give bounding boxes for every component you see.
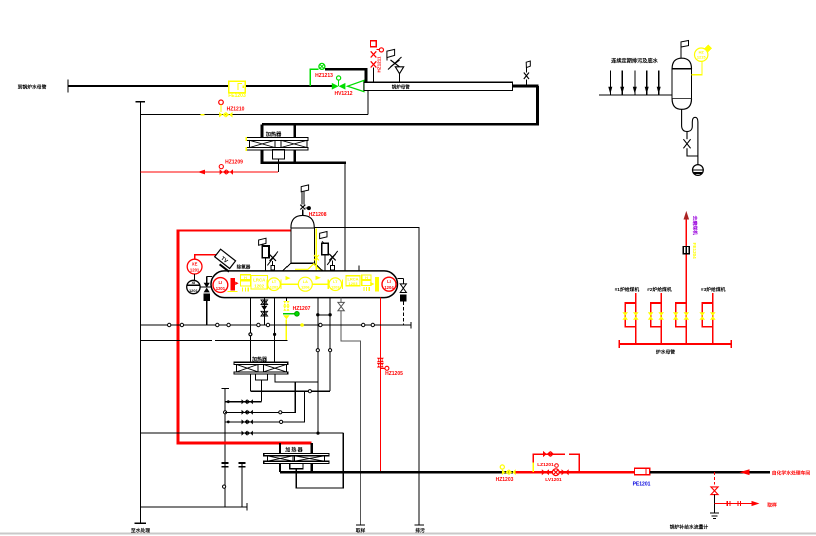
- blowdown flash vessel: [672, 58, 691, 109]
- wire: makeup water line black right: [650, 469, 811, 476]
- drum vent valve and flag: [300, 185, 311, 216]
- yellow alarm box H right: [362, 275, 371, 291]
- alarm LA1206: [298, 277, 312, 291]
- flow element FE1203: [228, 81, 246, 99]
- svg-text:LI: LI: [219, 280, 223, 285]
- wire: feeder manifold y=344.2: [619, 340, 731, 348]
- wire: horizontal line y=325: [140, 322, 411, 329]
- svg-text:1201: 1201: [190, 268, 200, 273]
- svg-text:LZ1201: LZ1201: [537, 462, 554, 468]
- wire: blowdown collect line y=95.1: [599, 94, 672, 96]
- wire: red main vertical x=177.9: [177, 230, 180, 445]
- wire: red supply to drum y=230.4: [178, 229, 291, 231]
- wire: yellow link LT1202 to LA1206: [281, 276, 298, 284]
- svg-text:取样: 取样: [356, 527, 366, 534]
- E2 condensate pot: [255, 374, 267, 380]
- deaerator tank: [211, 271, 398, 298]
- valve HZ1203 yellow: [496, 465, 516, 483]
- svg-text:HV1212: HV1212: [334, 91, 352, 97]
- wire: yellow link LA1206 to LT1203: [312, 276, 328, 285]
- wire: left long vertical x=140.3: [139, 102, 141, 523]
- svg-text:1201: 1201: [216, 286, 226, 291]
- tank left drain leg with valve: [203, 277, 212, 325]
- svg-text:PE1201: PE1201: [633, 481, 651, 487]
- svg-text:1202: 1202: [254, 284, 264, 289]
- level gauge assembly right of drum: [320, 232, 338, 271]
- heat exchanger E3 frame: [280, 443, 312, 472]
- svg-text:FE1203: FE1203: [228, 93, 246, 99]
- svg-text:至水处理: 至水处理: [131, 527, 150, 534]
- wire: feeder branch 4: [699, 293, 715, 344]
- svg-text:锅炉母管: 锅炉母管: [391, 84, 410, 91]
- wire: leg x=274.6 to line2: [273, 298, 276, 341]
- sample cooler TV: [213, 249, 237, 271]
- svg-text:HZ1209: HZ1209: [225, 159, 243, 165]
- transmitter LT1202: [267, 278, 281, 291]
- wire: bottom drain line y=506.8: [140, 503, 247, 511]
- level instrument HZ1215 yellow: [692, 44, 713, 74]
- wire: red riser to coal feeders x=686.3: [684, 211, 690, 344]
- svg-text:FE1204: FE1204: [692, 243, 697, 260]
- svg-text:连续定期排污及底水: 连续定期排污及底水: [611, 57, 659, 65]
- globe valve HZ1213: [315, 63, 333, 78]
- hand switch HZ1210: [219, 100, 245, 112]
- wire: green bypass riser: [310, 69, 319, 86]
- wire: thick line from header to downcomer: [513, 85, 539, 88]
- wire: second line y=114.7: [140, 114, 368, 116]
- svg-text:LT: LT: [333, 280, 338, 284]
- steam trap: [693, 165, 704, 176]
- svg-text:HZ1211: HZ1211: [377, 56, 382, 73]
- E1 condensate pot: [273, 150, 285, 159]
- svg-text:1215: 1215: [697, 55, 706, 60]
- svg-text:HZ1207: HZ1207: [293, 306, 311, 312]
- valve group HZ1211: [371, 41, 384, 82]
- black valve stack leg x=264.3: [261, 298, 268, 326]
- heat exchanger E3 tube bundle: [264, 453, 329, 463]
- indicator XI1201: [187, 274, 212, 294]
- svg-text:去磨煤机: 去磨煤机: [692, 216, 699, 235]
- svg-text:除氧器: 除氧器: [237, 263, 251, 270]
- wire: thick bypass top line: [325, 69, 366, 81]
- yellow level bar right: [370, 277, 379, 291]
- red level bar: [228, 278, 239, 292]
- svg-text:HZ1213: HZ1213: [315, 73, 333, 79]
- transmitter LT1203: [328, 278, 342, 291]
- svg-text:HZ1210: HZ1210: [227, 106, 245, 112]
- svg-text:#1炉给煤机: #1炉给煤机: [615, 286, 640, 293]
- wire: E2 shell outlet path: [275, 374, 318, 433]
- svg-text:LRCA: LRCA: [253, 277, 266, 282]
- wire: red condensate line to PE1201: [516, 471, 635, 473]
- svg-text:到锅炉水母管: 到锅炉水母管: [18, 84, 47, 91]
- wire: leg x=251 to line2: [249, 298, 252, 341]
- wire: E2 lower header y=391.2: [250, 374, 330, 393]
- pipe header rectangle 锅炉母管: [364, 82, 513, 90]
- yellow level line in drum: [295, 229, 321, 287]
- wire: main steam line y=86: [68, 85, 332, 87]
- wire: bottom condensate header y=472.2 black left part: [280, 471, 513, 474]
- svg-text:炉水母管: 炉水母管: [656, 349, 675, 356]
- svg-text:LT: LT: [272, 280, 277, 284]
- sampling branch x=714.5: [710, 472, 719, 518]
- wire: LV1201 bypass loop: [533, 451, 579, 472]
- gray bottom border strip: [0, 533, 816, 535]
- level indicator LI1201: [213, 278, 228, 293]
- svg-text:HZ1205: HZ1205: [385, 371, 403, 377]
- drain leg valve pair on x=225.1: [222, 463, 229, 467]
- svg-text:加热器: 加热器: [265, 130, 282, 138]
- svg-text:1204: 1204: [384, 285, 394, 290]
- heat exchanger E2 feed wires: [250, 341, 274, 363]
- svg-text:HZ1208: HZ1208: [309, 212, 327, 218]
- wire: ladder line B y=412.3: [225, 382, 295, 415]
- svg-text:1202: 1202: [270, 285, 278, 289]
- wire: feeder branch 3 loop on main riser: [673, 303, 689, 327]
- recorder LRCA1203: [346, 276, 360, 286]
- wire: red sample line y=503.5: [715, 501, 777, 508]
- yellow drain valve stack HZ1207: [283, 298, 311, 341]
- svg-text:H: H: [244, 276, 247, 280]
- E3 condensate pot: [290, 464, 303, 469]
- red blowdown leg HZ1205: [377, 298, 403, 473]
- svg-text:LV1201: LV1201: [545, 477, 562, 483]
- gray blowdown leg x=341.1: [338, 298, 365, 526]
- svg-text:1203: 1203: [331, 285, 339, 289]
- tank right drain leg with valve: [398, 278, 407, 325]
- wire: ladder vertical x=225.1: [222, 389, 229, 507]
- flow element PE1201: [633, 468, 651, 487]
- wire: red feed to E3 y=443.1: [178, 442, 312, 445]
- valve pair yellow on HZ1210 line: [201, 112, 233, 118]
- analyzer XE1201: [187, 255, 216, 274]
- svg-text:H: H: [365, 276, 368, 280]
- wire: balance line from drum to right drop: [314, 227, 419, 525]
- wire: thick heater feed line y=124.3: [262, 123, 539, 126]
- recorder LRCA1202: [251, 276, 268, 289]
- control valve HV1212: [332, 76, 364, 97]
- flanges on line y=325: [168, 323, 375, 326]
- wire: feeder branch 1: [622, 293, 638, 344]
- svg-text:XI: XI: [192, 280, 196, 285]
- blowdown inlet drops: [610, 70, 658, 95]
- svg-text:1203: 1203: [349, 281, 359, 286]
- wire: ladder line C y=421.9: [225, 391, 304, 424]
- svg-text:1206: 1206: [301, 285, 309, 289]
- heat exchanger E1 加热器 frame: [261, 124, 346, 162]
- svg-text:加热器: 加热器: [284, 447, 304, 454]
- svg-text:#2炉给煤机: #2炉给煤机: [647, 286, 672, 293]
- wire: E2 pot drain: [260, 380, 262, 402]
- control valve LV1201: [542, 469, 569, 483]
- svg-text:排污: 排污: [415, 527, 425, 534]
- wire: red drain line HZ1209 y=172: [140, 159, 278, 174]
- deaerator head drum: [283, 215, 323, 271]
- tank top stub: [358, 266, 360, 271]
- drain leg valve pair x=241.9: [238, 462, 245, 507]
- wire: horizontal line y=340.7: [140, 340, 287, 342]
- vessel drain loop seal: [682, 109, 698, 164]
- svg-text:HZ1203: HZ1203: [496, 477, 514, 483]
- svg-text:取样: 取样: [767, 501, 777, 508]
- wire: ladder line D y=433.1: [140, 431, 343, 436]
- relief valve on header: [387, 49, 404, 81]
- wire: ladder line A y=401.7: [225, 399, 261, 404]
- wire: feeder branch 2: [648, 293, 664, 344]
- yellow alarm box H left: [241, 275, 251, 292]
- yellow tie-in on line y=325: [300, 323, 304, 327]
- svg-text:自化学水处理车间: 自化学水处理车间: [772, 470, 811, 477]
- svg-text:XE: XE: [192, 262, 198, 267]
- level indicator LI1204: [382, 277, 396, 291]
- vessel vent flag: [681, 41, 689, 59]
- svg-text:LI: LI: [387, 279, 391, 284]
- svg-text:#3炉给煤机: #3炉给煤机: [701, 286, 726, 293]
- svg-text:LA: LA: [303, 280, 308, 284]
- wire: E1 outlet down to deaerator: [344, 163, 346, 271]
- heat exchanger E2 tube bundle: [234, 362, 288, 374]
- svg-text:锅炉补给水流量计: 锅炉补给水流量计: [669, 523, 709, 530]
- heat exchanger E1 tube bundle: [246, 137, 308, 151]
- flow element FE1204: [683, 243, 697, 260]
- level gauge assembly left of drum: [259, 238, 278, 271]
- wire: condensate return loop to E3: [296, 433, 343, 488]
- vent valve with flag on header line: [524, 61, 531, 86]
- svg-text:1201: 1201: [189, 288, 199, 293]
- wire: legs x=317.8 and x=330.1: [316, 298, 332, 392]
